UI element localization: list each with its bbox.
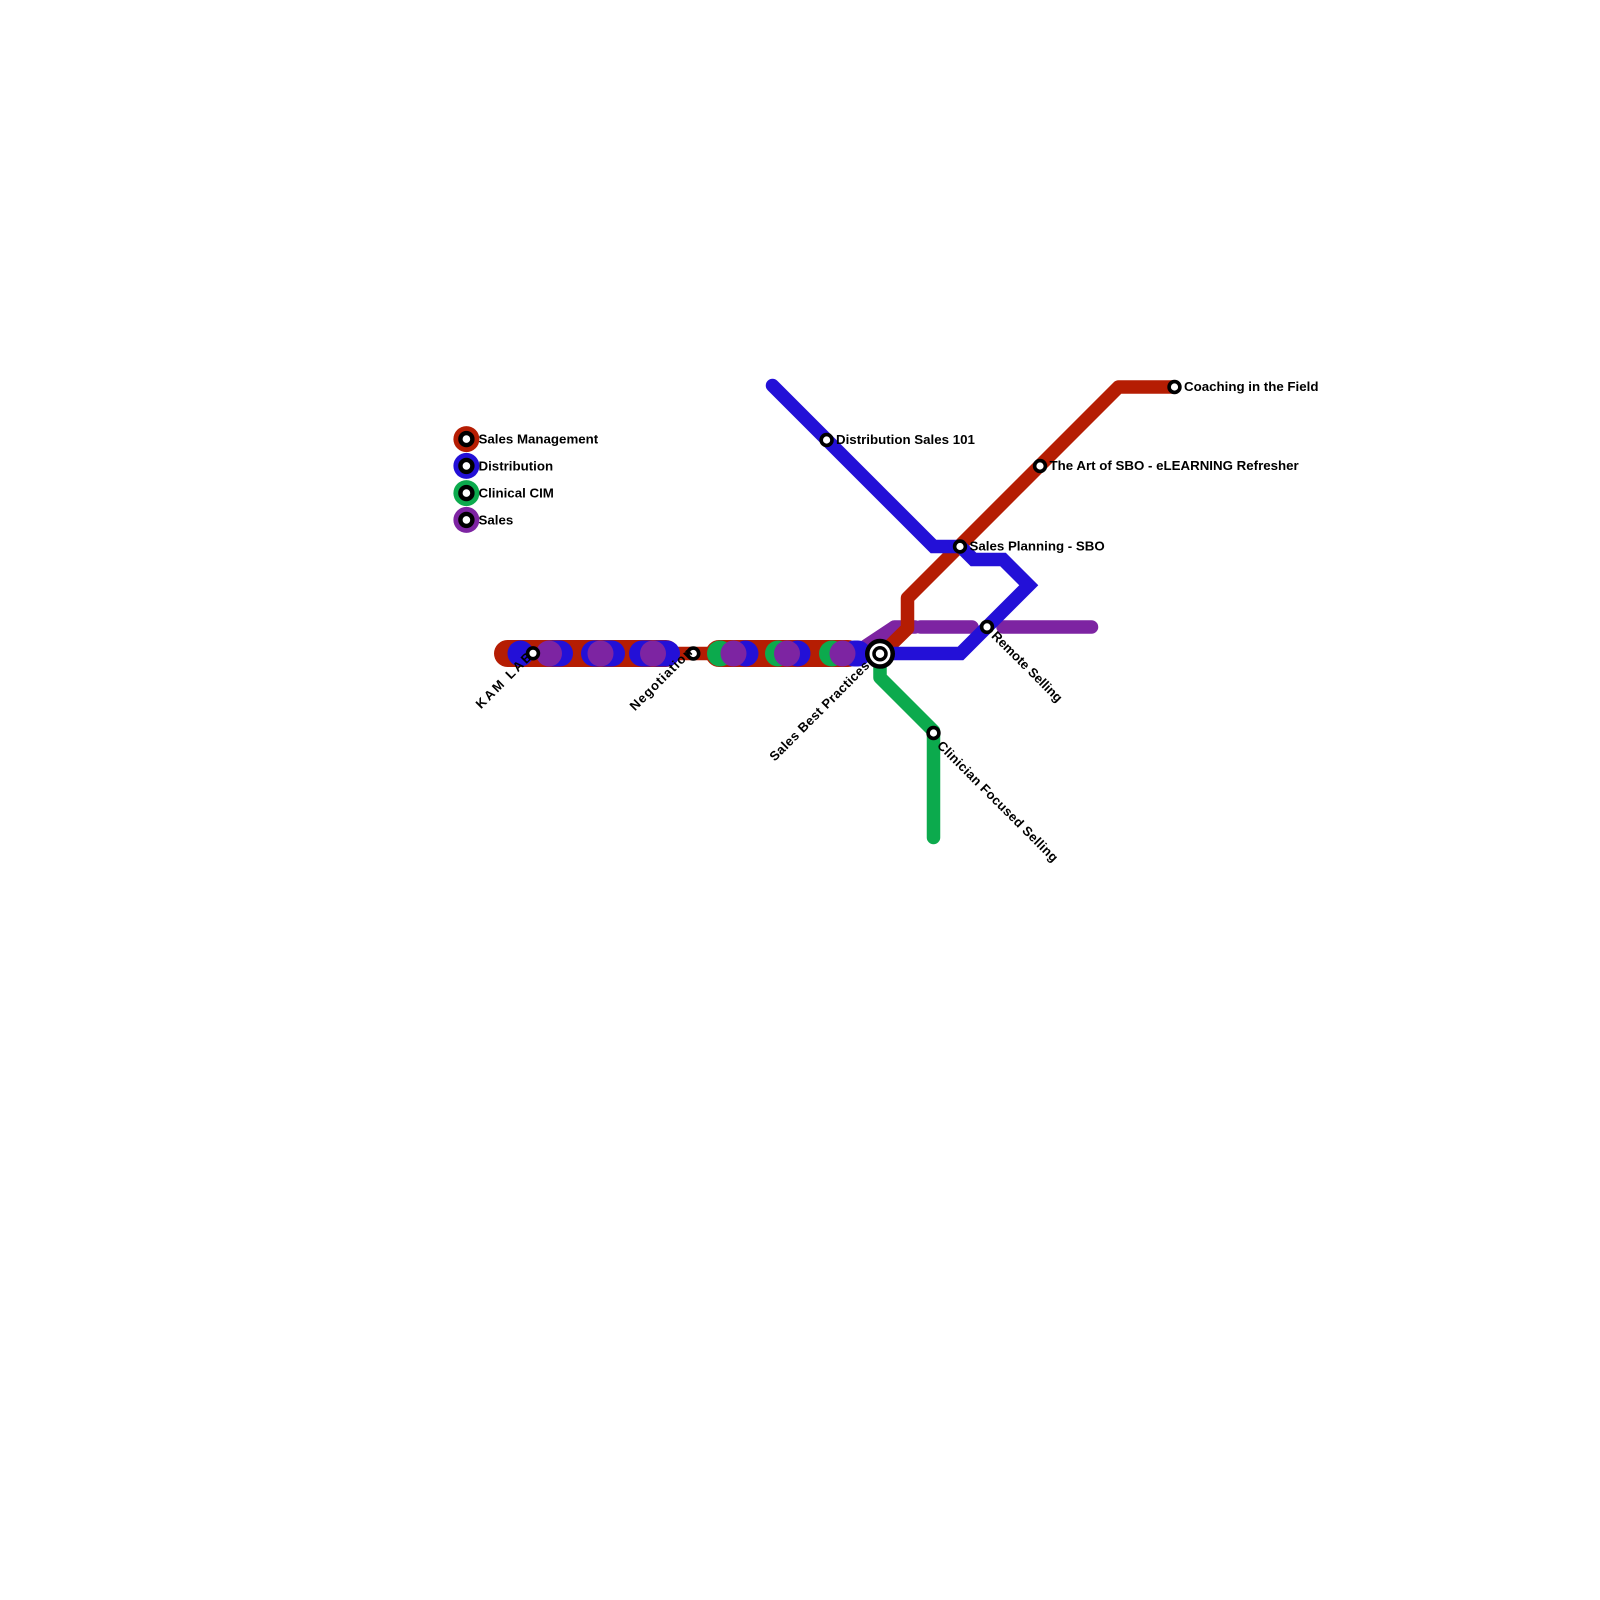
station Remote Selling bbox=[982, 622, 993, 633]
svg-text:Sales: Sales bbox=[479, 512, 514, 527]
red fat bundle capsule A (left of Negotiation) bbox=[508, 640, 667, 667]
svg-text:Distribution: Distribution bbox=[479, 458, 554, 473]
red fat bundle capsule B (right of Negotiation) bbox=[719, 640, 848, 667]
purple bundle discs bbox=[536, 641, 856, 667]
blue line Distribution: top cap through stations to hub bbox=[773, 386, 1029, 654]
svg-text:Sales Planning - SBO: Sales Planning - SBO bbox=[970, 538, 1105, 553]
station Distribution Sales 101 bbox=[821, 435, 832, 446]
green line Clinical CIM: hub to Clinician Focused Selling to bottom cap bbox=[880, 654, 934, 838]
svg-text:The Art of SBO - eLEARNING Ref: The Art of SBO - eLEARNING Refresher bbox=[1050, 458, 1299, 473]
station Coaching in the Field bbox=[1169, 382, 1180, 393]
station Negotiation bbox=[688, 648, 699, 659]
station Sales Planning - SBO bbox=[955, 541, 966, 552]
hub station Sales Best Practices (double ring) bbox=[867, 641, 893, 667]
svg-text:Coaching in the Field: Coaching in the Field bbox=[1184, 379, 1318, 394]
station KAM LAB bbox=[528, 648, 539, 659]
legend bbox=[453, 426, 598, 533]
blue bundle dashes bbox=[508, 641, 534, 667]
purple segment hub side to Remote Selling bbox=[921, 620, 973, 634]
green bundle dashes bbox=[707, 641, 733, 667]
station The Art of SBO bbox=[1035, 461, 1046, 472]
svg-text:Sales Management: Sales Management bbox=[479, 432, 599, 447]
svg-text:Distribution Sales 101: Distribution Sales 101 bbox=[836, 432, 976, 447]
purple line Sales: hub diagonal piece bbox=[855, 627, 915, 654]
svg-text:Clinical CIM: Clinical CIM bbox=[479, 486, 554, 501]
purple segment Remote Selling to right cap bbox=[1003, 620, 1092, 634]
red line Sales Management: Coaching in the Field to hub to left cap bbox=[497, 387, 1175, 654]
station Clinician Focused Selling bbox=[928, 728, 939, 739]
